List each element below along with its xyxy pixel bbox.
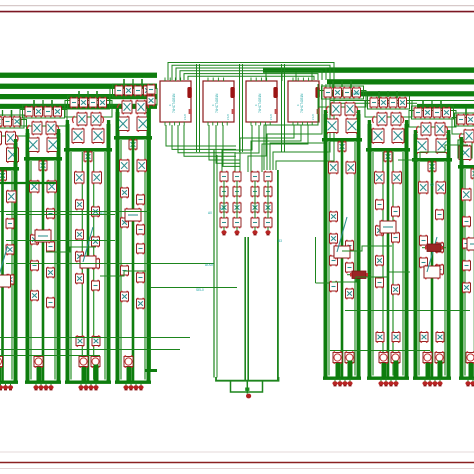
wire loop top row 2 column H	[409, 111, 456, 128]
transistor Q47	[129, 139, 137, 151]
resistor R7	[47, 208, 55, 220]
wire drop left of R1	[315, 237, 317, 283]
wire capital bar column A	[0, 167, 19, 171]
ground pad	[245, 388, 249, 391]
power bus VSS right	[417, 104, 474, 109]
resistor R35	[370, 97, 378, 108]
wire pedestal F	[336, 361, 341, 377]
transistor Q90	[436, 242, 444, 254]
wire bottom bar column D	[115, 381, 151, 384]
transistor Q67	[380, 97, 388, 108]
transistor Q23	[31, 290, 39, 302]
resistor R64	[220, 186, 228, 198]
wire stub up1 G	[378, 91, 380, 98]
wire stub up2 D	[141, 79, 143, 86]
resistor R66	[251, 186, 259, 198]
wire stub up2 B	[51, 100, 53, 107]
wire stub up3 C	[87, 91, 89, 97]
wire stub band to IC top x296	[295, 72, 297, 81]
transistor Q50	[121, 187, 129, 199]
transistor Q30	[84, 151, 92, 163]
resistor R37	[376, 199, 384, 211]
transistor Q72	[392, 128, 404, 144]
wire IC gutter x284.5	[284, 64, 286, 152]
connector D2 pads	[33, 382, 53, 390]
wire stub up2 C	[96, 91, 98, 98]
power bus VSS left	[0, 104, 157, 109]
wire stub up3 A	[2, 110, 4, 116]
wire loop top row column D	[113, 84, 155, 97]
wire jog R1 feed	[316, 282, 331, 284]
sheet border top	[0, 11, 474, 13]
wire cluster vertical	[223, 181, 225, 218]
svg-text:74HCT4051N: 74HCT4051N	[258, 93, 262, 113]
connector D5 pads	[332, 378, 352, 386]
power bus VDD right	[327, 91, 474, 96]
svg-text:VREF: VREF	[352, 92, 361, 96]
wire jog 4	[46, 247, 96, 252]
wire stub up1 H	[422, 101, 424, 108]
transistor Q3	[0, 131, 2, 146]
resistor R16	[79, 355, 88, 368]
wire stub up2 A	[11, 110, 13, 117]
transistor Q74	[375, 171, 385, 185]
svg-text:74HCT4051N: 74HCT4051N	[215, 93, 219, 113]
transistor Q15	[46, 121, 56, 136]
connector D6 pads	[378, 378, 398, 386]
resistor R11	[34, 355, 43, 368]
wire inner vertical C3	[104, 152, 106, 380]
wire inner vertical H0	[418, 162, 420, 376]
transistor Q31	[75, 171, 85, 185]
wire capital bar column D	[114, 136, 152, 140]
transistor Q88	[419, 181, 429, 195]
transistor Q89	[436, 181, 446, 195]
wire stub band to IC top x282	[281, 72, 283, 81]
resistor R32	[330, 281, 338, 293]
diode marks pair D	[117, 104, 148, 111]
wire loop top row 2 column C	[65, 101, 112, 118]
transistor Q35	[76, 229, 84, 241]
resistor R44	[433, 107, 441, 118]
wire stem right H	[447, 130, 450, 158]
transistor Q76	[376, 225, 384, 237]
transistor Q44	[136, 100, 146, 114]
transistor Q32	[92, 171, 102, 185]
transistor Q49	[137, 159, 147, 173]
wire loop top row column C	[68, 96, 110, 109]
wire rail right column A	[14, 143, 18, 381]
resistor R50	[435, 351, 444, 364]
wire cluster vertical	[254, 181, 256, 218]
transistor Q45	[117, 116, 129, 132]
wire bus y355	[0, 355, 100, 357]
transistor Q46	[137, 116, 149, 132]
resistor R48	[436, 264, 444, 276]
connector D11 pads	[252, 227, 257, 235]
wire bottom bar column A	[0, 381, 18, 384]
transistor Q59	[326, 118, 338, 134]
wire inner vertical G0	[372, 152, 374, 376]
resistor R70	[251, 217, 259, 229]
wire rail left column F	[324, 114, 328, 377]
transistor Q24	[80, 97, 88, 108]
resistor R26	[147, 84, 155, 95]
resistor R43	[414, 107, 422, 118]
wire bottom bar column G	[367, 377, 409, 380]
resistor R67	[264, 186, 272, 198]
transistor Q66	[346, 288, 354, 300]
wire U rail right	[277, 170, 279, 381]
transistor Q33	[76, 199, 84, 211]
wire capital bar column H	[412, 158, 452, 162]
svg-text:Z A B: Z A B	[227, 114, 230, 120]
transistor Q105	[251, 202, 259, 214]
resistor R42	[391, 351, 400, 364]
transistor Q20	[47, 180, 57, 194]
resistor R10	[47, 297, 55, 309]
wire bus y310	[345, 310, 470, 312]
transistor Q57	[331, 102, 341, 116]
bus segment over ICs 5	[184, 74, 318, 80]
wire stem right C	[107, 120, 110, 148]
resistor R3	[6, 218, 14, 230]
resistor R62	[251, 171, 259, 183]
wire stub up3 H	[431, 101, 433, 107]
wire loop top row column A	[0, 115, 24, 128]
transistor Q7	[0, 170, 7, 182]
wire loop top row column I	[455, 113, 474, 126]
wire pedestal D	[127, 365, 132, 381]
resistor R31	[346, 262, 354, 274]
wire stem left G	[368, 120, 371, 148]
wire inner vertical G1	[382, 152, 384, 376]
transistor Q84	[435, 122, 445, 137]
diode marks pair B	[27, 125, 58, 132]
resistor R39	[392, 232, 400, 244]
wire stem right A	[14, 139, 17, 167]
wire rail right column C	[107, 124, 111, 381]
bus below U1	[166, 125, 236, 156]
transistor Q95	[464, 129, 474, 144]
wire loop top row column H	[412, 106, 454, 119]
wire stub up2 F	[350, 81, 352, 88]
svg-text:Z A B: Z A B	[270, 114, 273, 120]
svg-text:A1: A1	[100, 211, 104, 215]
wire center rail column F	[341, 142, 344, 377]
transistor Q9	[7, 190, 17, 204]
wire bus y214	[6, 214, 115, 216]
wire inner vertical D0	[120, 140, 122, 380]
transistor Q2	[13, 116, 21, 127]
transistor Q18	[39, 160, 47, 172]
resistor R46	[420, 235, 428, 247]
wire loop top row 2 column I	[452, 118, 474, 135]
transistor Q39	[76, 335, 84, 347]
ground terminal red	[246, 394, 251, 399]
svg-text:Z A B: Z A B	[184, 114, 187, 120]
wire bus y349	[0, 349, 180, 351]
transistor Q79	[376, 331, 384, 343]
connector D7 pads	[422, 378, 442, 386]
transistor Q37	[76, 251, 84, 263]
transistor Q16	[27, 137, 39, 153]
transistor Q71	[372, 128, 384, 144]
wire jog 1	[342, 246, 392, 251]
resistor R60	[220, 171, 228, 183]
wire rail left column C	[66, 124, 70, 381]
transistor Q19	[30, 180, 40, 194]
resistor R25	[124, 355, 133, 368]
resistor R41	[379, 351, 388, 364]
relay RL2	[347, 271, 371, 279]
multiplexer U2	[203, 78, 235, 126]
wire stem right G	[405, 120, 408, 148]
wire pedestal I	[469, 361, 474, 377]
transistor Q52	[121, 291, 129, 303]
wire bus y287	[150, 287, 237, 289]
resistor R53	[463, 216, 471, 228]
wire inner vertical A1	[2, 171, 4, 380]
wire inner vertical G2	[392, 152, 394, 376]
wire rail right column D	[147, 112, 151, 381]
transistor Q21	[31, 234, 39, 246]
wire loop top row column B	[23, 105, 65, 118]
wire inner vertical F0	[328, 142, 330, 376]
wire capital bar column C	[64, 148, 112, 152]
wire bus y337	[0, 337, 190, 339]
wire center rail column D	[132, 140, 135, 381]
transistor Q51	[121, 217, 129, 229]
wire bus y240	[6, 240, 115, 242]
transistor Q80	[392, 331, 400, 343]
wire U bottom bar	[216, 377, 279, 381]
resistor R69	[233, 217, 241, 229]
resistor R20	[137, 194, 145, 206]
bus below U3/U4	[222, 125, 308, 172]
relay K12 wide cell	[35, 229, 51, 244]
resistor R19	[134, 85, 142, 96]
transistor Q58	[345, 102, 355, 116]
wire center rail column H	[431, 162, 434, 377]
power bus GND left	[0, 84, 157, 89]
diode marks pair G	[372, 116, 403, 123]
wire bus y263	[6, 263, 214, 265]
transistor Q83	[421, 122, 431, 137]
transistor Q106	[264, 202, 272, 214]
diode marks pair F	[326, 106, 357, 113]
svg-text:SEL0: SEL0	[196, 288, 204, 292]
wire loop top row 2 column B	[20, 110, 67, 127]
wire U rail center a	[244, 237, 246, 381]
connector D9 pads	[221, 227, 226, 235]
resistor R6	[44, 106, 52, 117]
ground stem	[246, 381, 248, 394]
relay K16 wide cell	[380, 220, 396, 235]
wire stem left H	[414, 130, 417, 158]
transistor Q43	[122, 100, 132, 114]
wire inner vertical C2	[93, 152, 95, 380]
wire loop top row 2 column D	[110, 89, 157, 106]
transistor Q17	[47, 137, 59, 153]
wire center rail column B	[42, 161, 45, 381]
resistor R17	[91, 355, 100, 368]
wire bus y211	[0, 211, 150, 213]
multiplexer U1	[160, 78, 192, 126]
wire rail right column B	[57, 133, 61, 381]
wire stub up3 G	[387, 91, 389, 97]
transistor Q55	[334, 87, 342, 98]
wire inner vertical G3	[402, 152, 404, 376]
svg-text:Z A B: Z A B	[312, 114, 315, 120]
connector D12 pads	[265, 227, 270, 235]
transistor Q91	[420, 331, 428, 343]
relay K13 wide cell	[80, 227, 96, 269]
wire stem right D	[147, 108, 150, 136]
resistor R34	[345, 351, 354, 364]
wire stub up3 D	[132, 79, 134, 85]
transistor Q40	[92, 335, 100, 347]
bus below U2	[209, 125, 240, 166]
bus segment over ICs 1	[168, 63, 334, 81]
wire capital bar column F	[322, 138, 362, 142]
transistor Q22	[47, 267, 55, 279]
relay K14 wide cell	[125, 208, 141, 223]
wire feeder right 1	[330, 100, 474, 102]
resistor R8	[47, 241, 55, 253]
sheet border bottom faint	[0, 468, 474, 470]
resistor R24	[137, 272, 145, 284]
connector D4 pads	[123, 382, 143, 390]
wire pedestal G	[382, 361, 387, 377]
transistor Q34	[92, 206, 100, 218]
wire stub band to IC top x312	[311, 72, 313, 81]
transistor Q10	[6, 244, 14, 256]
resistor R65	[233, 186, 241, 198]
sheet border outer top (faint)	[0, 5, 474, 7]
wire rail left column D	[116, 112, 120, 381]
wire feeder right 2	[330, 102, 417, 104]
multiplexer U4	[288, 78, 320, 126]
wire capital bar column I	[458, 165, 474, 169]
resistor R12	[70, 97, 78, 108]
transistor Q99	[471, 168, 474, 180]
multiplexer U3	[246, 78, 278, 126]
diode marks pair H	[416, 126, 447, 133]
bus segment over ICs 6	[188, 76, 314, 80]
wire U rail center b	[247, 237, 249, 381]
wire pedestal2 F	[348, 361, 353, 377]
wire loop top row column F	[322, 86, 364, 99]
resistor R59	[466, 351, 474, 364]
transistor Q11	[6, 274, 14, 286]
wire loop top row column G	[368, 96, 410, 109]
transistor Q78	[392, 284, 400, 296]
wire center rail column C	[87, 152, 90, 381]
wire inner vertical B1	[42, 161, 44, 380]
wire mid-left vertical 2	[216, 155, 218, 378]
wire stub up1 B	[33, 100, 35, 107]
wire box component right edge	[458, 140, 472, 158]
resistor R61	[233, 171, 241, 183]
transistor Q60	[346, 118, 358, 134]
wire stub up1 F	[332, 81, 334, 88]
wire pedestal2 H	[438, 361, 443, 377]
wire inner vertical B0	[30, 161, 32, 380]
resistor R49	[423, 351, 432, 364]
wire stem left C	[66, 120, 69, 148]
transistor Q36	[92, 236, 100, 248]
wire rail left column I	[460, 141, 464, 377]
resistor R40	[376, 277, 384, 289]
transistor Q64	[330, 211, 338, 223]
wire pedestal2 G	[394, 361, 399, 377]
transistor Q6	[7, 147, 19, 163]
diode marks pair A	[0, 135, 18, 142]
wire stem left I	[460, 137, 463, 165]
wire stub up1 D	[123, 79, 125, 86]
resistor R71	[264, 217, 272, 229]
transistor Q82	[443, 107, 451, 118]
wire center rail column G	[387, 152, 390, 377]
bus segment over ICs 2	[172, 65, 330, 80]
svg-text:A0: A0	[208, 211, 212, 215]
relay K15 wide cell	[334, 217, 350, 259]
wire loop top row 2 column G	[365, 101, 412, 118]
diode marks pair C	[72, 116, 103, 123]
wire L4 extension bottom bar	[145, 369, 157, 372]
wire pedestal C	[82, 365, 87, 381]
svg-text:AOUT: AOUT	[205, 263, 214, 267]
wire stub up2 G	[396, 91, 398, 98]
sheet border bottom	[0, 462, 474, 464]
transistor Q25	[99, 97, 107, 108]
transistor Q93	[467, 114, 474, 125]
wire inner vertical C0	[70, 152, 72, 380]
resistor R4	[0, 355, 3, 368]
wire stub up3 F	[341, 81, 343, 87]
transistor Q69	[377, 112, 387, 126]
wire U lower box	[231, 381, 263, 392]
wire pedestal A	[0, 365, 1, 381]
wire loop top row 2 column F	[319, 91, 366, 108]
wire inner vertical H1	[431, 162, 433, 376]
transistor Q27	[91, 112, 101, 126]
wire inner vertical H2	[444, 162, 446, 376]
wire stub band to IC top x266	[265, 72, 267, 81]
transistor Q92	[436, 331, 444, 343]
wire IC gutter x281.5	[281, 64, 283, 152]
power bus VDD left	[0, 94, 157, 99]
resistor R22	[137, 243, 145, 255]
wire inner vertical F1	[341, 142, 343, 376]
transistor Q56	[353, 87, 361, 98]
wire loop top row 2 column A	[0, 120, 27, 137]
wire capital bar column G	[366, 148, 410, 152]
wire rail L4 extension	[148, 108, 151, 370]
wire bottom bar column B	[25, 381, 61, 384]
transistor Q75	[392, 171, 402, 185]
wire IC gutter x239.5	[239, 64, 241, 152]
resistor R18	[115, 85, 123, 96]
wire bottom bar column C	[65, 381, 111, 384]
resistor R57	[463, 260, 471, 272]
wire jog 5	[100, 271, 146, 276]
transistor Q87	[428, 161, 436, 173]
svg-text:C2: C2	[430, 183, 434, 187]
resistor R21	[137, 224, 145, 236]
wire cluster vertical	[236, 181, 238, 218]
